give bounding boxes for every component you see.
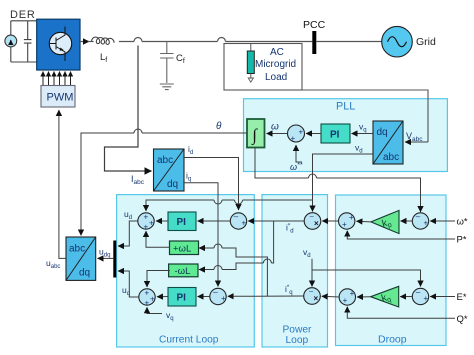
svg-text:+: + [145, 289, 150, 298]
svg-text:+: + [343, 296, 348, 305]
svg-text:+: + [144, 213, 149, 222]
main AC rail wire with hops [119, 41, 382, 43]
svg-text:abc: abc [383, 152, 399, 163]
d power divider [304, 213, 321, 230]
inverter (IGBT bridge) [37, 19, 80, 70]
uq summing junction [139, 289, 155, 305]
i*q wire from power loop [228, 295, 304, 297]
wire PI to uq sum [157, 296, 168, 298]
PI block d-axis [168, 212, 196, 231]
svg-text:Grid: Grid [416, 36, 436, 48]
svg-text:P*: P* [457, 235, 467, 246]
wire q error to PI [198, 296, 210, 298]
svg-text:+: + [350, 289, 355, 298]
svg-text:abc: abc [157, 155, 173, 166]
P* input [347, 231, 455, 239]
svg-text:dq: dq [377, 127, 388, 138]
theta wire to udq transform [81, 133, 247, 236]
svg-text:+: + [291, 134, 296, 143]
svg-text:+: + [242, 219, 247, 228]
Current Loop region box [117, 195, 255, 347]
droop E error sum [412, 288, 428, 304]
droop E sum out [339, 289, 355, 305]
E* input [430, 296, 455, 298]
ud wire into bus [118, 221, 138, 246]
PWM block [41, 86, 75, 108]
wire droop to d divider [322, 220, 338, 222]
d error sum [230, 213, 246, 229]
current abc/dq transform [154, 149, 185, 191]
svg-text:+: + [424, 219, 429, 228]
dq/abc voltage transform [66, 237, 96, 280]
Droop region box [336, 195, 447, 346]
svg-text:+: + [349, 213, 354, 222]
w* input [430, 220, 455, 222]
svg-text:dq: dq [167, 179, 178, 190]
inductor Lf [92, 37, 115, 44]
Power Loop region box [262, 195, 328, 347]
svg-text:ω*: ω* [457, 217, 468, 228]
svg-text:DER: DER [10, 9, 36, 21]
wire Kp to P sum [356, 220, 371, 223]
svg-text:+: + [342, 220, 347, 229]
svg-text:×: × [314, 294, 319, 303]
svg-text:PI: PI [177, 293, 187, 304]
Kp gain [371, 210, 399, 233]
Iabc measurement tap [105, 46, 152, 172]
svg-text:+: + [221, 294, 226, 303]
hop over Iabc tap [134, 38, 142, 42]
svg-text:E*: E* [457, 292, 467, 303]
load resistor [250, 44, 252, 52]
svg-text:PWM: PWM [47, 92, 74, 104]
svg-text:PI: PI [330, 129, 340, 140]
DC source loop wires [11, 21, 37, 62]
+wL block [170, 241, 199, 255]
q error sum [210, 288, 226, 304]
wire id [184, 158, 239, 211]
svg-text:Droop: Droop [378, 334, 407, 346]
svg-text:+: + [150, 295, 155, 304]
+wL input from i*q branch [199, 248, 267, 296]
uabc wire to PWM [59, 110, 66, 258]
svg-text:Load: Load [265, 72, 287, 83]
svg-text:Power: Power [283, 325, 312, 336]
PLL region box [244, 99, 448, 172]
wire sum to integrator, label w [267, 133, 288, 135]
PI block q-axis [168, 288, 196, 307]
wire vq to PI [352, 133, 374, 135]
svg-text:–: – [416, 212, 421, 221]
svg-text:-ωL: -ωL [175, 266, 191, 277]
svg-text:–: – [234, 212, 239, 221]
vd wire from dq block down to power loop [313, 154, 374, 212]
Vabc measurement wire [302, 90, 428, 142]
svg-text:PLL: PLL [336, 101, 355, 113]
svg-text:–: – [213, 288, 218, 297]
filter capacitor Cf [160, 42, 173, 84]
wire P error to Kp [401, 220, 413, 222]
vd feed-forward wire to ud sum [146, 200, 313, 211]
Kq gain [371, 286, 399, 307]
udq bus bar [113, 241, 116, 278]
svg-text:PI: PI [177, 217, 187, 228]
droop P error sum [412, 213, 428, 229]
wire PI to sum [306, 133, 321, 135]
svg-text:+: + [424, 294, 429, 303]
svg-text:×: × [314, 219, 319, 228]
ground under Cf [160, 84, 174, 90]
wire error to PI [198, 220, 231, 222]
svg-text:+: + [149, 219, 154, 228]
PLL summing junction [288, 125, 305, 142]
droop P sum out [339, 213, 355, 229]
svg-text:ω: ω [271, 122, 279, 133]
wire iq [184, 183, 218, 287]
omega** reference stub [296, 145, 302, 162]
Q* input [347, 307, 455, 319]
integrator block [247, 119, 265, 148]
PWM gate arrows [43, 72, 71, 86]
omega feedback wire to droop [255, 147, 421, 212]
+wL output to ud sum bottom [146, 231, 170, 247]
svg-text:Loop: Loop [286, 335, 309, 346]
dc-link capacitor [24, 21, 32, 62]
svg-text:Microgrid: Microgrid [255, 59, 296, 70]
PLL dq/abc block U2 [373, 121, 403, 164]
-wL input from i*d branch [199, 221, 274, 270]
ud summing junction [138, 213, 154, 229]
-wL output to uq sum top [147, 271, 170, 288]
-wL block [169, 264, 198, 277]
svg-text:PCC: PCC [303, 19, 326, 31]
svg-text:+ωL: +ωL [173, 243, 191, 254]
wire PI to ud sum [156, 220, 168, 222]
wire droop to q divider [322, 295, 339, 298]
svg-text:Q*: Q* [457, 314, 468, 325]
udq wire to transform [98, 257, 114, 259]
q power divider [304, 288, 321, 305]
wire Kq to E sum [357, 296, 371, 298]
svg-text:+: + [145, 299, 150, 308]
svg-text:+: + [144, 223, 149, 232]
svg-text:dq: dq [79, 268, 90, 279]
vq feed-forward stub [147, 307, 162, 313]
svg-text:Current Loop: Current Loop [159, 335, 219, 346]
svg-text:–: – [416, 288, 421, 297]
PI block PLL [321, 124, 350, 143]
grid source [382, 26, 413, 57]
i*d wire from power loop [248, 220, 304, 222]
transistor symbol [49, 32, 71, 54]
svg-text:AC: AC [270, 47, 284, 58]
svg-text:θ: θ [216, 121, 222, 132]
svg-text:+: + [299, 128, 304, 137]
svg-text:abc: abc [69, 244, 85, 255]
uq wire into bus [118, 271, 139, 297]
wire E error to Kq [400, 296, 412, 298]
current source I1 [5, 35, 17, 47]
hop at load tap [218, 38, 226, 42]
AC microgrid load box [224, 44, 302, 91]
